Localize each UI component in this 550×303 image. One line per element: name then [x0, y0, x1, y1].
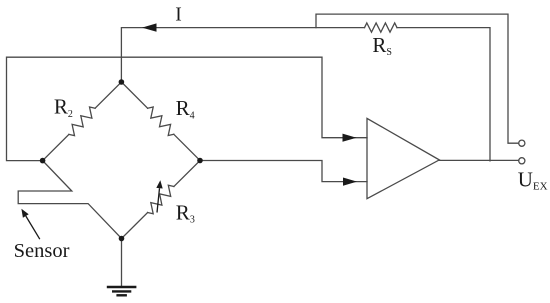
svg-text:I: I: [175, 5, 182, 26]
svg-text:Sensor: Sensor: [14, 240, 70, 262]
